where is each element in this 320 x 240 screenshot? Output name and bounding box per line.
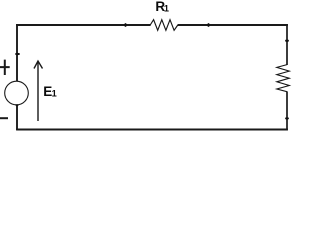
voltage source E1 circle xyxy=(5,81,29,105)
resistor R1 zigzag xyxy=(150,20,178,31)
pin dot right resistor top xyxy=(285,40,289,42)
minus sign xyxy=(0,117,8,119)
plus sign xyxy=(0,60,10,75)
wire right rail lower xyxy=(286,91,288,130)
pin dot source top xyxy=(15,53,20,55)
resistor (right) vertical zigzag xyxy=(277,65,290,92)
wire right rail upper xyxy=(286,24,288,65)
svg-text:1: 1 xyxy=(164,4,169,14)
svg-text:1: 1 xyxy=(52,89,57,99)
wire left rail upper segment xyxy=(16,24,18,81)
pin dot source bottom xyxy=(15,104,18,106)
pin dot right resistor bottom xyxy=(285,117,289,119)
wire left rail lower segment xyxy=(16,105,18,130)
current arrow shaft xyxy=(37,62,39,121)
current arrow head xyxy=(34,61,43,69)
wire bottom xyxy=(16,129,288,131)
wire top left segment xyxy=(16,24,151,26)
pin dot R1 left xyxy=(124,23,126,27)
pin dot R1 right xyxy=(207,23,209,27)
wire top right segment xyxy=(178,24,288,26)
